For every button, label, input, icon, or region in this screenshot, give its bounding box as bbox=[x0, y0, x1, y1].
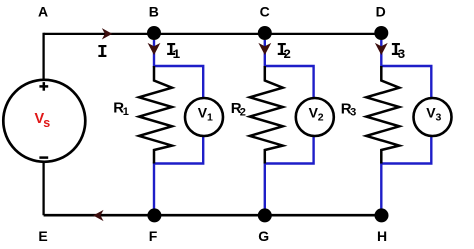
svg-text:1: 1 bbox=[173, 47, 181, 62]
svg-text:2: 2 bbox=[283, 47, 291, 62]
svg-text:s: s bbox=[43, 116, 50, 130]
svg-text:2: 2 bbox=[318, 111, 324, 123]
svg-text:B: B bbox=[149, 4, 159, 20]
svg-text:3: 3 bbox=[350, 107, 356, 119]
svg-text:1: 1 bbox=[207, 111, 213, 123]
svg-text:3: 3 bbox=[436, 111, 442, 123]
svg-text:E: E bbox=[38, 228, 47, 244]
svg-text:1: 1 bbox=[123, 106, 129, 118]
svg-text:G: G bbox=[258, 228, 269, 244]
svg-text:D: D bbox=[376, 4, 386, 20]
svg-text:I: I bbox=[97, 43, 108, 63]
svg-text:A: A bbox=[38, 4, 48, 20]
svg-text:C: C bbox=[260, 4, 270, 20]
svg-text:3: 3 bbox=[398, 47, 406, 62]
svg-text:F: F bbox=[149, 228, 158, 244]
svg-text:2: 2 bbox=[240, 107, 246, 119]
svg-text:H: H bbox=[377, 228, 387, 244]
